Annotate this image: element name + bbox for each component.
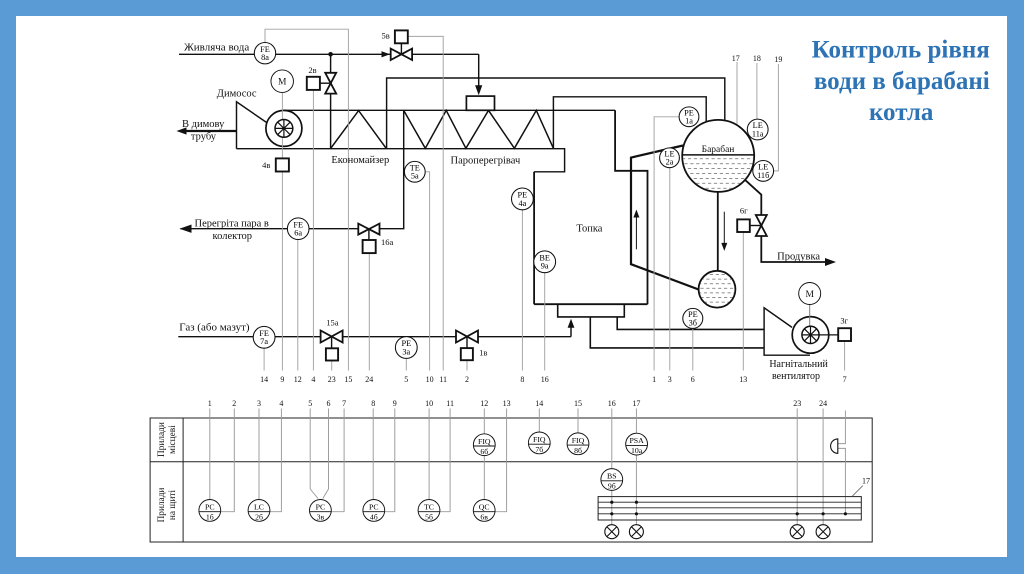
signal 23 from valve 15a xyxy=(331,361,333,371)
economizer feed header box xyxy=(466,96,494,110)
svg-text:1в: 1в xyxy=(479,348,487,358)
svg-text:17: 17 xyxy=(732,54,740,63)
svg-text:2: 2 xyxy=(232,399,236,408)
local instrument BS9b xyxy=(601,469,623,491)
svg-text:В димову: В димову xyxy=(182,119,225,130)
svg-text:17: 17 xyxy=(862,477,870,486)
svg-text:трубу: трубу xyxy=(191,132,217,143)
svg-text:7: 7 xyxy=(843,375,847,384)
svg-text:13: 13 xyxy=(739,375,747,384)
svg-text:17: 17 xyxy=(632,399,640,408)
signal 1 from PE1a xyxy=(654,117,679,371)
svg-text:2в: 2в xyxy=(308,65,316,75)
svg-text:2б: 2б xyxy=(255,513,263,522)
svg-text:PC: PC xyxy=(316,503,326,512)
svg-text:2: 2 xyxy=(465,375,469,384)
svg-text:місцеві: місцеві xyxy=(168,425,178,454)
svg-text:1: 1 xyxy=(652,375,656,384)
svg-text:2а: 2а xyxy=(666,158,674,167)
svg-text:14: 14 xyxy=(535,399,543,408)
valve 6g xyxy=(750,225,762,227)
svg-text:4а: 4а xyxy=(518,199,526,208)
svg-text:PC: PC xyxy=(205,503,215,512)
svg-text:PSA: PSA xyxy=(629,436,644,445)
drum level line xyxy=(682,154,754,156)
svg-text:4б: 4б xyxy=(370,513,378,522)
local instrument FIQ8b xyxy=(567,433,589,455)
wire economizer outlet to drum xyxy=(387,78,725,149)
instrument FE8a xyxy=(254,43,275,64)
column line 15 xyxy=(577,409,579,433)
svg-text:Нагнітальний: Нагнітальний xyxy=(769,359,828,370)
instrument TE5a xyxy=(404,161,425,182)
smoke exhauster impeller xyxy=(275,119,293,137)
lower drum vessel xyxy=(699,271,736,308)
svg-text:3б: 3б xyxy=(689,318,697,327)
svg-text:3а: 3а xyxy=(402,347,410,356)
svg-text:6а: 6а xyxy=(294,229,302,238)
svg-text:16: 16 xyxy=(608,399,616,408)
smoke exhauster casing xyxy=(266,110,302,146)
column line 11 xyxy=(440,409,450,512)
valve 2v xyxy=(320,82,331,84)
lamp HL24 xyxy=(816,525,830,539)
svg-text:Прилади: Прилади xyxy=(157,422,167,457)
downcomer flow arrow xyxy=(723,212,725,246)
instrument FE7a xyxy=(253,326,275,348)
svg-text:16: 16 xyxy=(541,375,549,384)
wire PSA to lamp xyxy=(635,455,637,525)
wire downcomer diagonal xyxy=(631,146,700,291)
svg-text:10: 10 xyxy=(425,399,433,408)
svg-text:4: 4 xyxy=(311,375,315,384)
svg-text:QC: QC xyxy=(479,503,490,512)
instrument LE11b xyxy=(753,161,774,182)
svg-text:15а: 15а xyxy=(326,317,339,327)
wire BS to lamp xyxy=(611,490,613,524)
svg-text:1а: 1а xyxy=(685,117,693,126)
svg-text:24: 24 xyxy=(819,399,827,408)
actuator 3g xyxy=(838,328,851,341)
svg-text:5: 5 xyxy=(404,375,408,384)
svg-text:1б: 1б xyxy=(206,513,214,522)
column line 7 xyxy=(331,409,344,512)
flue duct bottom and furnace lip xyxy=(237,149,565,172)
svg-text:1: 1 xyxy=(208,399,212,408)
svg-text:LC: LC xyxy=(254,503,264,512)
wire bell line lower xyxy=(838,448,846,513)
svg-text:5в: 5в xyxy=(381,31,389,41)
local instrument FIQ6b xyxy=(473,434,495,456)
local instrument FIQ7b xyxy=(528,432,550,454)
svg-text:9а: 9а xyxy=(541,262,549,271)
furnace left wall xyxy=(533,172,535,304)
svg-text:6в: 6в xyxy=(480,513,488,522)
svg-text:3: 3 xyxy=(668,375,672,384)
local instrument PSA10a xyxy=(626,433,648,455)
svg-text:9: 9 xyxy=(280,375,284,384)
signal 7 from actuator 3g xyxy=(844,341,846,370)
table label divider xyxy=(182,418,184,542)
svg-text:на щиті: на щиті xyxy=(168,489,178,520)
svg-text:3г: 3г xyxy=(840,316,848,326)
svg-text:Контроль рівня: Контроль рівня xyxy=(812,37,990,64)
svg-text:15: 15 xyxy=(344,375,352,384)
svg-text:Пароперегрівач: Пароперегрівач xyxy=(451,156,521,167)
column line 14 xyxy=(538,409,540,433)
motor M1 xyxy=(271,70,294,93)
valve 5v xyxy=(400,43,402,54)
signal 15 from FE8a xyxy=(265,29,348,370)
wire gas line xyxy=(178,336,571,338)
wire blowdown outlet xyxy=(761,236,828,262)
wire blowdown from drum xyxy=(745,180,761,215)
svg-text:Топка: Топка xyxy=(576,224,602,235)
svg-text:24: 24 xyxy=(365,375,373,384)
motor M2 xyxy=(799,283,821,305)
svg-text:Продувка: Продувка xyxy=(777,251,820,262)
svg-text:9б: 9б xyxy=(608,482,616,491)
svg-text:М: М xyxy=(278,78,287,88)
signal 14 from FE7a xyxy=(263,348,265,370)
svg-text:3в: 3в xyxy=(317,513,325,522)
signal 6 from PE3b xyxy=(692,328,694,370)
signal 10 from TE5a xyxy=(425,172,429,371)
svg-text:10: 10 xyxy=(426,375,434,384)
panel instrument QC6v xyxy=(473,500,495,522)
svg-text:23: 23 xyxy=(328,375,336,384)
instrument PE4a xyxy=(512,188,534,210)
air duct upper line xyxy=(617,317,764,330)
instrument FE6a xyxy=(287,218,309,240)
svg-text:6: 6 xyxy=(691,375,695,384)
valve 1v xyxy=(466,337,468,349)
column line 24 xyxy=(822,409,824,525)
table outer frame xyxy=(150,418,872,542)
svg-text:FIQ: FIQ xyxy=(533,435,546,444)
signal 13 from valve 6g xyxy=(742,232,744,371)
bus junction dots xyxy=(610,501,613,504)
signal 16 from BE9a xyxy=(544,273,546,371)
lamp HL16 xyxy=(605,525,619,539)
svg-text:6б: 6б xyxy=(480,447,488,456)
svg-text:16а: 16а xyxy=(381,237,394,247)
svg-text:6г: 6г xyxy=(740,206,748,216)
svg-text:5а: 5а xyxy=(411,172,419,181)
svg-text:5б: 5б xyxy=(425,513,433,522)
bus ref 17 tick xyxy=(852,486,863,497)
fan casing xyxy=(792,317,829,354)
svg-text:13: 13 xyxy=(503,399,511,408)
valve 15a xyxy=(331,337,333,349)
column line 6 xyxy=(323,409,329,499)
svg-text:Прилади: Прилади xyxy=(157,488,167,523)
svg-text:12: 12 xyxy=(294,375,302,384)
furnace hopper xyxy=(558,304,625,317)
wire economizer inlet pipe xyxy=(330,54,332,148)
instrument LE11a xyxy=(747,119,768,140)
svg-text:Димосос: Димосос xyxy=(217,88,257,99)
table row divider xyxy=(150,461,872,463)
signal 8 from PE4a xyxy=(521,210,523,371)
wire drum steam to superheater xyxy=(553,97,706,148)
motor link M2 xyxy=(809,305,811,327)
fan shaft xyxy=(819,334,838,336)
superheater coil xyxy=(404,110,554,148)
svg-text:9: 9 xyxy=(393,399,397,408)
economizer coil xyxy=(331,111,387,149)
furnace bottom xyxy=(534,303,647,305)
signal 17 to drum xyxy=(736,62,738,125)
column line 1 xyxy=(209,409,211,500)
instrument PE3b xyxy=(683,308,703,328)
panel instrument PC3v xyxy=(310,500,332,522)
svg-text:води в барабані: води в барабані xyxy=(814,68,990,95)
riser flow arrow xyxy=(635,214,637,249)
svg-text:котла: котла xyxy=(869,99,934,126)
signal 4 from valve 2v xyxy=(312,90,314,371)
column line 16 xyxy=(611,409,613,469)
svg-text:вентилятор: вентилятор xyxy=(772,371,820,382)
svg-text:11: 11 xyxy=(446,399,454,408)
svg-text:TC: TC xyxy=(424,503,434,512)
signal 18 to LE11a xyxy=(756,63,758,119)
column line 2 xyxy=(221,409,235,512)
instrument LE2a xyxy=(660,148,680,168)
svg-text:18: 18 xyxy=(753,54,761,63)
fan impeller xyxy=(802,326,819,343)
instrument PE3a xyxy=(395,337,417,359)
damper actuator 4v xyxy=(276,158,289,171)
column line 12 xyxy=(483,409,485,500)
instrument BE9a xyxy=(534,251,556,273)
valve 16a xyxy=(368,229,370,240)
svg-text:11б: 11б xyxy=(757,171,769,180)
svg-text:8б: 8б xyxy=(574,446,582,455)
svg-text:7: 7 xyxy=(342,399,346,408)
svg-text:8а: 8а xyxy=(261,53,269,62)
signal 12 from FE6a xyxy=(297,240,299,371)
fan housing xyxy=(764,308,810,355)
panel instrument TC5b xyxy=(418,500,440,522)
wire superheated steam outlet xyxy=(181,110,404,228)
svg-text:FIQ: FIQ xyxy=(478,437,491,446)
air duct lower line xyxy=(590,317,764,348)
column line 13 xyxy=(495,409,506,512)
signal 2 from valve 1v xyxy=(466,360,468,371)
column line 5 xyxy=(310,409,318,499)
panel instrument PC1b xyxy=(199,500,221,522)
svg-text:12: 12 xyxy=(480,399,488,408)
wire feed water down to header xyxy=(478,54,480,88)
panel instrument PC4b xyxy=(363,500,385,522)
svg-text:PC: PC xyxy=(369,503,379,512)
svg-text:10а: 10а xyxy=(631,446,643,455)
instrument PE1a xyxy=(679,107,699,127)
svg-text:3: 3 xyxy=(257,399,261,408)
column line 23 xyxy=(796,409,798,525)
svg-text:7б: 7б xyxy=(535,445,543,454)
svg-text:19: 19 xyxy=(774,55,782,64)
signal 19 to LE11b xyxy=(774,64,779,171)
svg-text:15: 15 xyxy=(574,399,582,408)
svg-text:BS: BS xyxy=(607,472,617,481)
svg-text:4: 4 xyxy=(279,399,283,408)
column line 3 xyxy=(258,409,260,500)
smoke exhauster housing xyxy=(237,102,268,149)
column line 9 xyxy=(385,409,395,512)
wire bell line upper xyxy=(838,411,846,444)
signal 11 from valve 5v xyxy=(408,36,443,370)
svg-text:FIQ: FIQ xyxy=(572,436,585,445)
signal bus lines xyxy=(598,501,861,503)
svg-text:23: 23 xyxy=(793,399,801,408)
lamp HL17 xyxy=(629,525,643,539)
svg-text:14: 14 xyxy=(260,375,268,384)
svg-text:8: 8 xyxy=(371,399,375,408)
svg-text:11: 11 xyxy=(439,375,447,384)
svg-text:Барабан: Барабан xyxy=(702,144,735,155)
panel instrument LC2b xyxy=(248,500,270,522)
wire drum to lower drum xyxy=(717,192,719,271)
svg-text:11а: 11а xyxy=(752,129,764,138)
svg-text:Економайзер: Економайзер xyxy=(331,155,389,166)
svg-text:7а: 7а xyxy=(260,337,268,346)
column line 10 xyxy=(428,409,430,500)
drum barabап vessel xyxy=(682,120,754,192)
signal 3 from LE2a xyxy=(669,168,671,371)
svg-text:8: 8 xyxy=(520,375,524,384)
lamp HL23 xyxy=(790,525,804,539)
svg-text:колектор: колектор xyxy=(213,231,253,242)
signal bus box xyxy=(598,497,861,520)
wire feed water main xyxy=(179,53,479,55)
column line 4 xyxy=(270,409,282,512)
wire gas burner riser xyxy=(570,327,572,337)
signal 5 from PE3a xyxy=(405,358,407,370)
flue downpass to furnace right wall xyxy=(615,110,647,304)
svg-text:М: М xyxy=(805,290,814,300)
svg-text:Живляча вода: Живляча вода xyxy=(184,42,249,54)
wire chimney outlet xyxy=(186,130,237,132)
column line 8 xyxy=(372,409,374,500)
signal 9 from motor M1 xyxy=(281,93,283,371)
flue duct top xyxy=(284,109,615,111)
svg-text:Перегріта пара в: Перегріта пара в xyxy=(194,219,268,230)
svg-text:Газ (або мазут): Газ (або мазут) xyxy=(179,321,250,333)
bell symbol xyxy=(831,439,838,453)
svg-text:4в: 4в xyxy=(262,160,270,170)
signal 24 from valve 16a xyxy=(368,253,370,370)
column line 17 xyxy=(635,409,637,434)
svg-text:6: 6 xyxy=(327,399,331,408)
svg-text:5: 5 xyxy=(308,399,312,408)
